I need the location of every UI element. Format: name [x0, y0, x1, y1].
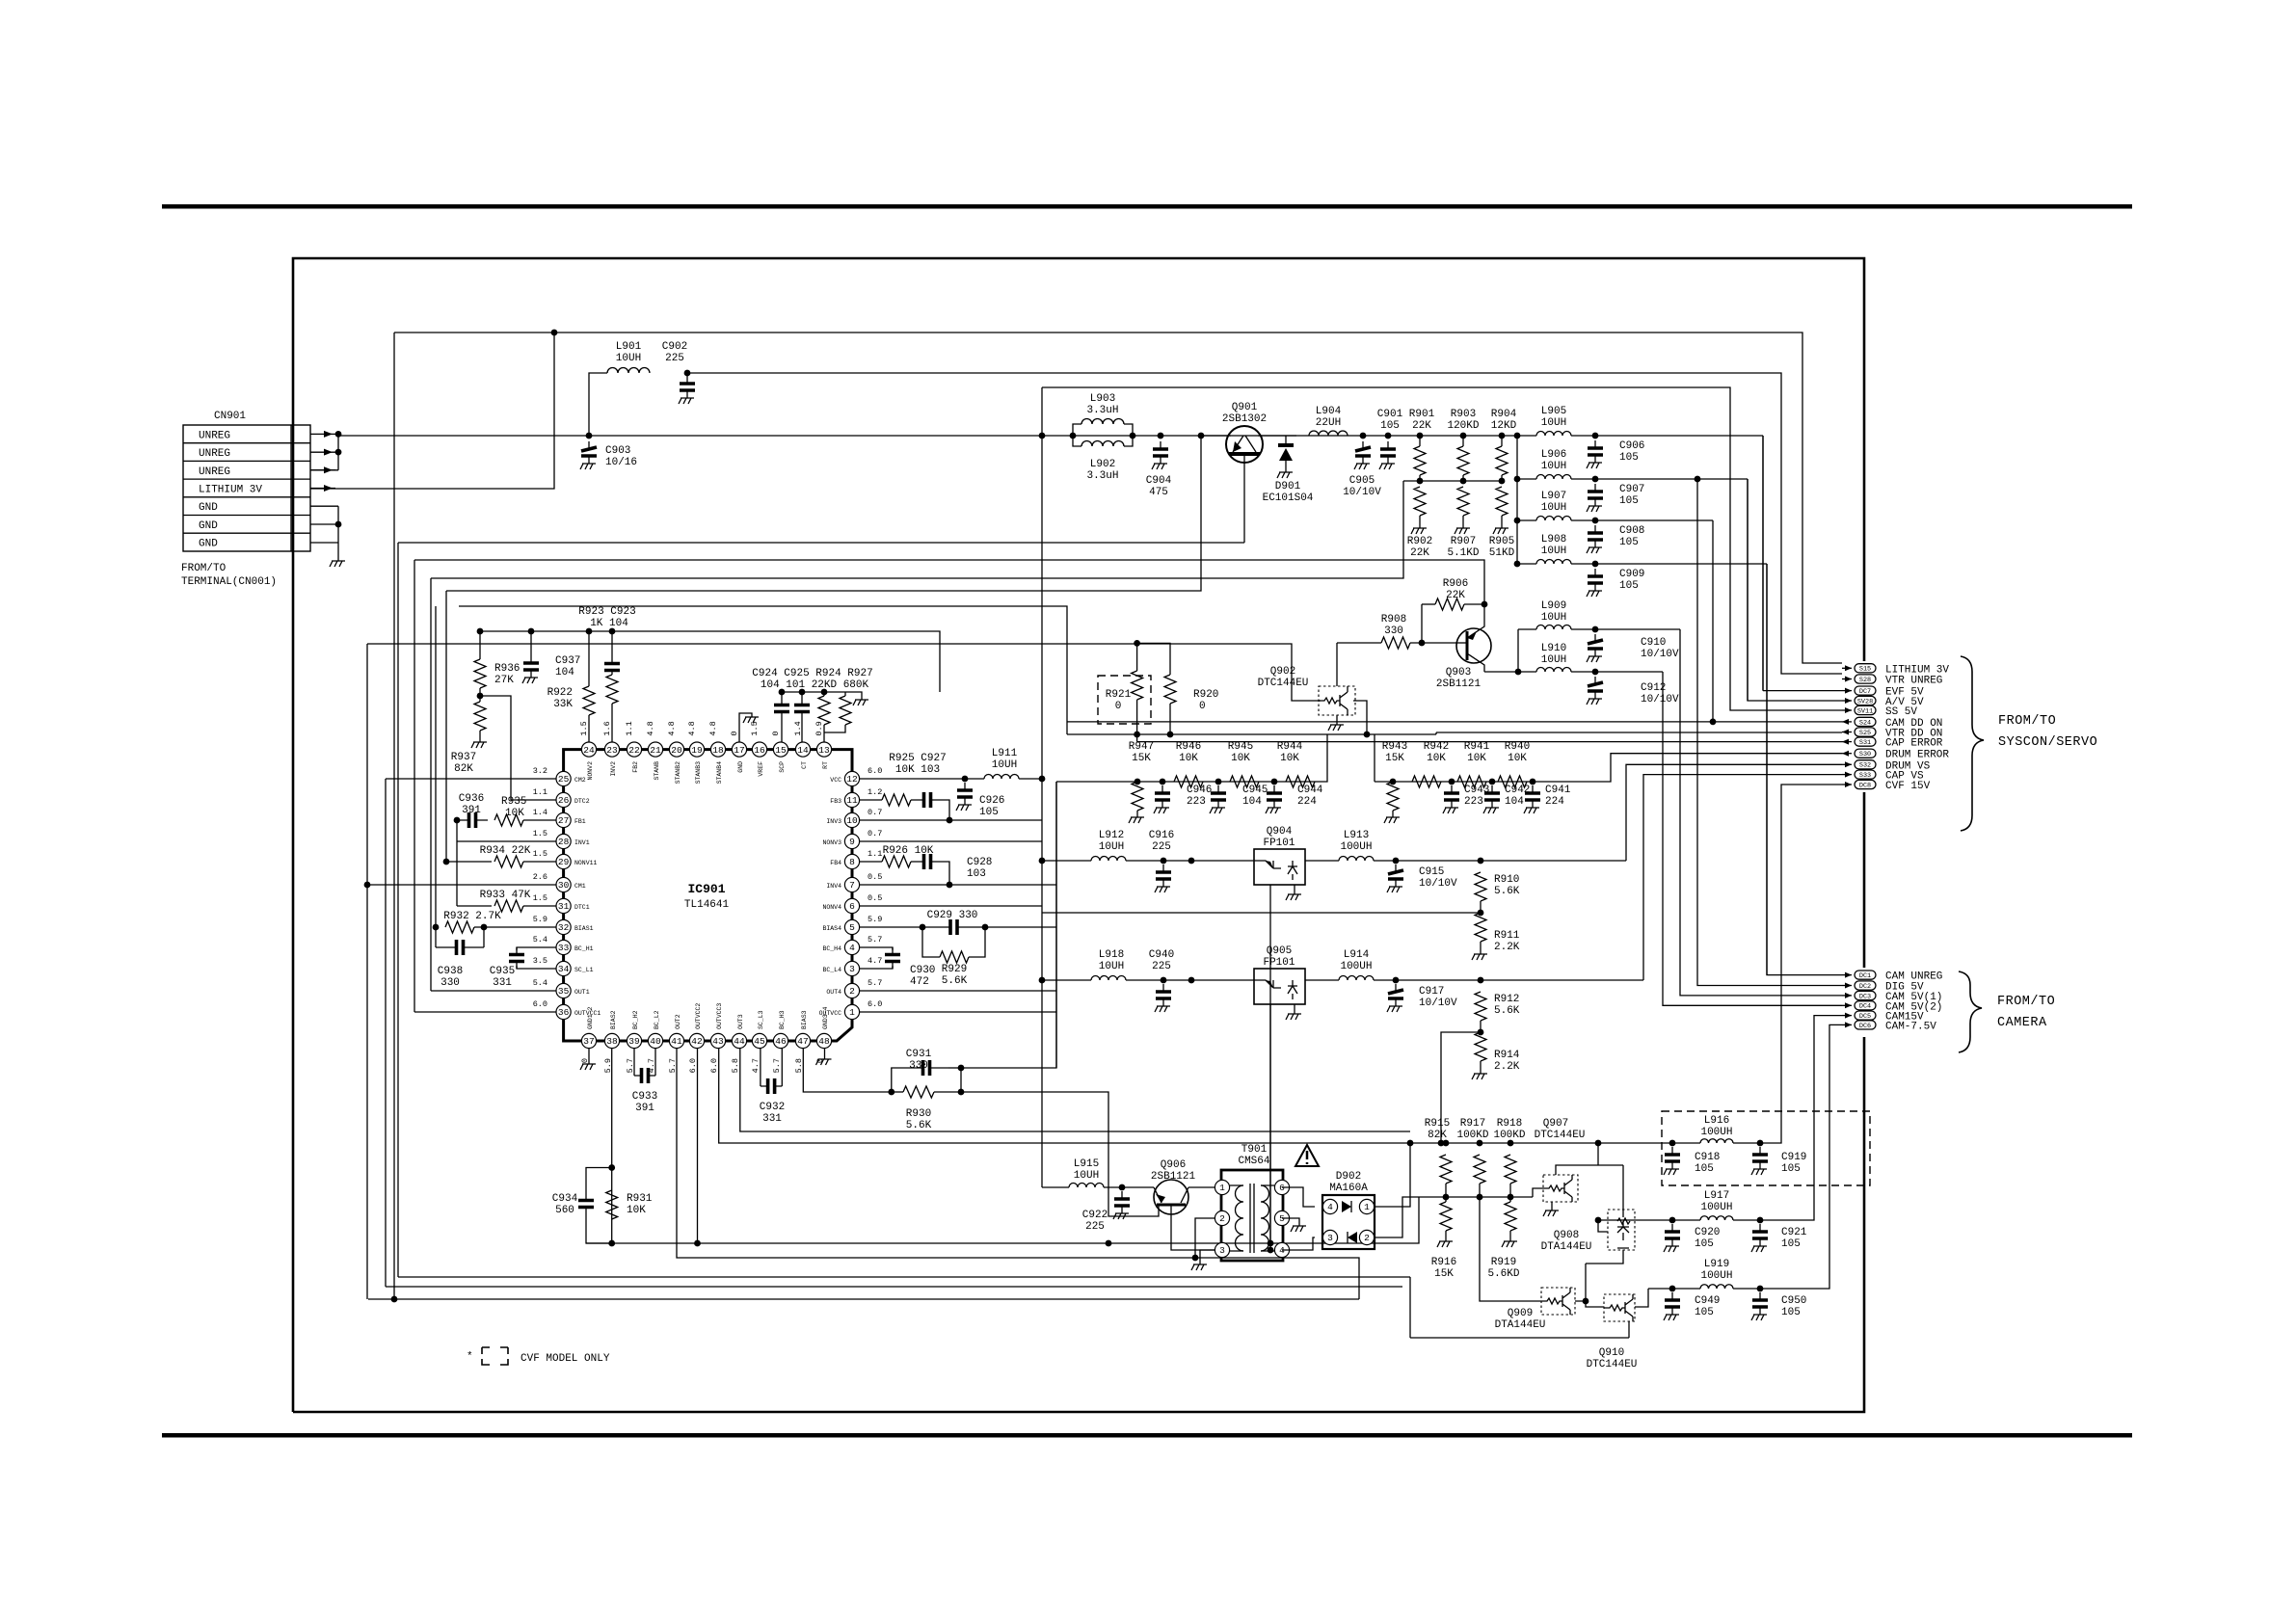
- svg-text:CVF MODEL ONLY: CVF MODEL ONLY: [521, 1353, 610, 1365]
- opto-isolator Q905 FP101: [1254, 969, 1305, 1004]
- svg-text:L919: L919: [1704, 1259, 1729, 1270]
- svg-text:2: 2: [1364, 1233, 1370, 1243]
- svg-text:27K: 27K: [494, 675, 514, 686]
- svg-text:DTA144EU: DTA144EU: [1495, 1319, 1546, 1331]
- svg-text:391: 391: [462, 805, 481, 816]
- svg-text:2.2K: 2.2K: [1494, 942, 1520, 953]
- svg-text:L906: L906: [1541, 449, 1566, 461]
- svg-text:0.9: 0.9: [814, 721, 824, 735]
- resistor R915: [1443, 1140, 1450, 1147]
- svg-text:OUT1: OUT1: [574, 989, 590, 996]
- svg-text:D902: D902: [1336, 1171, 1361, 1183]
- svg-text:DC2: DC2: [1859, 983, 1871, 991]
- svg-text:C950: C950: [1781, 1295, 1806, 1307]
- svg-text:5.7: 5.7: [868, 978, 882, 988]
- svg-text:6.0: 6.0: [709, 1058, 719, 1073]
- svg-text:30: 30: [558, 880, 570, 891]
- svg-text:331: 331: [493, 977, 512, 989]
- svg-text:100UH: 100UH: [1700, 1127, 1732, 1138]
- svg-text:C933: C933: [632, 1091, 657, 1103]
- svg-text:6.0: 6.0: [533, 999, 547, 1009]
- svg-text:17: 17: [734, 745, 744, 756]
- T901 pin 1: [1215, 1180, 1229, 1194]
- capacitor C919: [1759, 1147, 1761, 1155]
- svg-text:0: 0: [1199, 701, 1206, 712]
- svg-text:R919: R919: [1491, 1257, 1516, 1268]
- svg-text:C902: C902: [662, 341, 687, 353]
- svg-text:Q906: Q906: [1161, 1159, 1186, 1171]
- svg-text:10/10V: 10/10V: [1343, 487, 1381, 498]
- svg-text:R929: R929: [942, 964, 967, 975]
- svg-text:L911: L911: [992, 748, 1018, 759]
- svg-text:OUTVCC2: OUTVCC2: [695, 1003, 702, 1029]
- capacitor C941: [1530, 779, 1536, 785]
- svg-text:5.6K: 5.6K: [942, 975, 968, 987]
- svg-text:13: 13: [818, 745, 830, 756]
- svg-text:4.7: 4.7: [751, 1058, 761, 1073]
- svg-text:31: 31: [558, 901, 570, 912]
- svg-text:43: 43: [712, 1036, 724, 1047]
- terminal S28 VTR UNREG: [1842, 678, 1852, 680]
- svg-text:15K: 15K: [1132, 753, 1151, 764]
- capacitor C904: [1160, 441, 1161, 449]
- transistor Q903 2SB1121: [1456, 628, 1491, 663]
- capacitor C907: [1571, 478, 1748, 480]
- svg-text:R922: R922: [547, 687, 573, 699]
- resistor R941: [1457, 776, 1486, 787]
- svg-text:S30: S30: [1859, 751, 1871, 758]
- svg-text:105: 105: [1619, 580, 1639, 592]
- svg-text:10K: 10K: [627, 1205, 646, 1216]
- capacitor C910: [1571, 628, 1680, 630]
- svg-text:6.0: 6.0: [868, 999, 882, 1009]
- svg-text:1.4: 1.4: [793, 721, 803, 735]
- svg-text:L914: L914: [1344, 949, 1370, 961]
- capacitor C946: [1160, 779, 1166, 785]
- svg-text:SYSCON/SERVO: SYSCON/SERVO: [1998, 735, 2097, 750]
- svg-text:DC7: DC7: [1859, 688, 1871, 696]
- svg-text:BC_H2: BC_H2: [632, 1010, 639, 1029]
- svg-text:7: 7: [849, 880, 855, 891]
- svg-text:38: 38: [606, 1036, 618, 1047]
- wire bus fan y613: [446, 436, 1201, 591]
- IC901 pin 43 OUTVCC3: [710, 1033, 725, 1048]
- svg-text:BC_H1: BC_H1: [574, 945, 594, 952]
- wire LITHIUM 3V to top bus: [310, 333, 554, 489]
- svg-text:104: 104: [1242, 796, 1262, 808]
- svg-text:10K: 10K: [1427, 753, 1446, 764]
- resistor R905: [1499, 478, 1506, 485]
- wire bottom bus y1348: [368, 1298, 1359, 1300]
- svg-text:20: 20: [671, 745, 682, 756]
- svg-text:105: 105: [1781, 1163, 1801, 1175]
- svg-text:6.0: 6.0: [868, 766, 882, 776]
- transistor Q902 DTC144EU: [1319, 686, 1355, 715]
- svg-text:DTC144EU: DTC144EU: [1258, 678, 1309, 689]
- svg-text:4: 4: [1327, 1202, 1333, 1212]
- svg-text:GND: GND: [199, 502, 218, 514]
- page bottom rule: [162, 1433, 2132, 1438]
- svg-text:S15: S15: [1859, 666, 1871, 674]
- terminal DC8 CVF 15V: [1842, 784, 1852, 785]
- svg-text:0: 0: [771, 731, 781, 735]
- resistor R932 / capacitor C938 to pin32: [433, 924, 440, 931]
- svg-text:C926: C926: [979, 795, 1004, 807]
- diode D901 EC101S04: [1285, 436, 1287, 443]
- svg-text:OUT2: OUT2: [675, 1014, 681, 1029]
- svg-text:2SB1121: 2SB1121: [1436, 678, 1482, 690]
- svg-text:1.5: 1.5: [750, 721, 760, 735]
- svg-text:1.5: 1.5: [579, 721, 589, 735]
- inductor L916: [1669, 1140, 1676, 1147]
- svg-text:C907: C907: [1619, 484, 1644, 495]
- svg-text:6: 6: [1279, 1183, 1285, 1193]
- svg-text:DTA144EU: DTA144EU: [1541, 1241, 1592, 1253]
- IC901 pin 28 INV1: [556, 834, 571, 848]
- IC901 pin 32 BIAS1: [556, 919, 571, 934]
- IC901 pin 10 INV3: [844, 812, 859, 827]
- IC901 pin 14 CT: [795, 742, 810, 757]
- wire inner-left vertical x409: [393, 333, 395, 1299]
- svg-text:48: 48: [818, 1036, 830, 1047]
- svg-text:34: 34: [558, 964, 570, 974]
- resistor R920: [1137, 643, 1170, 675]
- svg-text:R902: R902: [1407, 536, 1432, 547]
- svg-text:29: 29: [558, 857, 570, 867]
- IC901 pin 22 FB2: [627, 742, 641, 757]
- svg-text:33: 33: [558, 943, 570, 953]
- wire bus fan y581: [414, 560, 1484, 604]
- svg-text:CAMERA: CAMERA: [1997, 1016, 2047, 1030]
- IC901 pin 48 GND3-4: [816, 1033, 831, 1048]
- svg-text:CN901: CN901: [214, 411, 246, 422]
- svg-text:C909: C909: [1619, 569, 1644, 580]
- svg-text:27: 27: [558, 815, 569, 826]
- svg-text:S28: S28: [1859, 677, 1871, 684]
- svg-text:SS 5V: SS 5V: [1885, 706, 1917, 718]
- capacitor C916: [1126, 860, 1254, 862]
- wire left vertical x463: [445, 591, 447, 862]
- ground IC pin48: [824, 1049, 826, 1059]
- resistor R934 to pin29: [443, 859, 450, 865]
- IC901 pin 23 INV2: [604, 742, 619, 757]
- IC901 pin 11 FB3: [844, 792, 859, 807]
- svg-text:225: 225: [1152, 841, 1171, 853]
- wire SV11 feed from y402 bus: [1042, 387, 1842, 710]
- svg-text:105: 105: [1695, 1238, 1714, 1250]
- IC901 pin 33 BC_H1: [556, 940, 571, 954]
- svg-text:1.1: 1.1: [625, 721, 634, 735]
- svg-text:DTC1: DTC1: [574, 904, 590, 911]
- svg-text:R910: R910: [1494, 874, 1519, 886]
- svg-text:51KD: 51KD: [1489, 547, 1515, 559]
- svg-text:STANB4: STANB4: [716, 761, 723, 785]
- svg-text:R923 C923: R923 C923: [578, 606, 635, 618]
- wire T901 pin2: [1195, 1218, 1215, 1258]
- resistor R945: [1230, 776, 1259, 787]
- svg-text:10UH: 10UH: [1541, 502, 1566, 514]
- transistor Q908 DTA144EU: [1608, 1210, 1635, 1250]
- terminal S31 CAP ERROR: [1842, 741, 1852, 743]
- wire S32 feed: [1626, 764, 1842, 861]
- IC901 pin 39 BC_H2: [627, 1033, 641, 1048]
- IC901 pin 7 INV4: [844, 877, 859, 891]
- svg-text:10UH: 10UH: [1099, 841, 1124, 853]
- svg-text:330: 330: [909, 1060, 928, 1072]
- inductor L904: [1309, 431, 1348, 436]
- svg-text:INV1: INV1: [574, 839, 590, 846]
- svg-text:C937: C937: [555, 655, 580, 667]
- wire left vertical x382: [366, 644, 368, 1299]
- svg-text:10K: 10K: [1508, 753, 1527, 764]
- capacitor C923 / resistor R923 column: [611, 631, 613, 659]
- svg-text:22K: 22K: [1410, 547, 1429, 559]
- inductor L908: [1517, 563, 1536, 565]
- wire DC7 feed: [1763, 690, 1842, 692]
- svg-text:2SB1121: 2SB1121: [1151, 1171, 1196, 1183]
- svg-text:37: 37: [583, 1036, 594, 1047]
- IC901 pin 5 BIAS4: [844, 919, 859, 934]
- svg-text:223: 223: [1464, 796, 1483, 808]
- svg-text:225: 225: [665, 353, 684, 364]
- svg-text:BIAS1: BIAS1: [574, 925, 594, 932]
- capacitor C942: [1489, 779, 1496, 785]
- svg-text:2: 2: [849, 986, 855, 997]
- svg-text:100UH: 100UH: [1340, 841, 1372, 853]
- svg-text:C940: C940: [1149, 949, 1174, 961]
- svg-text:R945: R945: [1228, 741, 1253, 753]
- wire L917 row: [1597, 1217, 1599, 1220]
- svg-text:R940: R940: [1505, 741, 1530, 753]
- svg-text:1.1: 1.1: [533, 787, 547, 797]
- transistor Q907 DTC144EU: [1543, 1175, 1578, 1202]
- wire left vertical x447: [430, 578, 432, 991]
- capacitor C940: [1126, 979, 1254, 981]
- svg-text:4.8: 4.8: [687, 721, 697, 735]
- svg-text:15K: 15K: [1385, 753, 1404, 764]
- svg-text:6: 6: [849, 901, 855, 912]
- svg-text:DTC2: DTC2: [574, 798, 590, 805]
- svg-text:1.5: 1.5: [533, 849, 547, 859]
- inductor L909: [1518, 628, 1536, 630]
- IC901 pin 34 SC_L1: [556, 961, 571, 975]
- inductor L913: [1305, 860, 1339, 862]
- svg-text:FP101: FP101: [1263, 957, 1295, 969]
- diode bridge D902 MA160A: [1322, 1195, 1375, 1249]
- svg-text:Q907: Q907: [1543, 1118, 1568, 1130]
- svg-text:R925 C927: R925 C927: [889, 753, 946, 764]
- svg-text:26: 26: [558, 795, 570, 806]
- svg-text:S31: S31: [1859, 739, 1871, 747]
- svg-text:35: 35: [558, 986, 570, 997]
- svg-text:R915: R915: [1425, 1118, 1450, 1130]
- inductor L907: [1517, 519, 1536, 521]
- capacitor C906: [1571, 435, 1763, 437]
- svg-text:5: 5: [1279, 1213, 1285, 1224]
- wire pin2 OUT4: [860, 990, 1056, 992]
- wire main UNREG rail: [338, 435, 1536, 437]
- wire pin12 VCC: [860, 778, 984, 780]
- wire Q905 row: [1042, 979, 1091, 981]
- svg-text:FB1: FB1: [574, 818, 586, 825]
- resistor R942: [1412, 776, 1441, 787]
- svg-text:R947: R947: [1129, 741, 1154, 753]
- svg-text:CAP ERROR: CAP ERROR: [1885, 738, 1943, 750]
- wire L908 output: [1766, 564, 1768, 975]
- terminal SV11 SS 5V: [1842, 709, 1852, 711]
- wire pin44 OUT3 down: [740, 1049, 1410, 1131]
- svg-text:3.5: 3.5: [533, 956, 547, 966]
- svg-text:CVF 15V: CVF 15V: [1885, 781, 1931, 792]
- svg-text:R916: R916: [1431, 1257, 1456, 1268]
- svg-text:1.4: 1.4: [533, 808, 547, 817]
- IC901 pin 41 OUT2: [669, 1033, 683, 1048]
- inductor L912: [1091, 857, 1126, 862]
- svg-text:R943: R943: [1382, 741, 1407, 753]
- svg-text:1K 104: 1K 104: [590, 618, 628, 629]
- svg-text:18: 18: [712, 745, 724, 756]
- wire bottom rail y1388: [1410, 1337, 1629, 1339]
- svg-text:105: 105: [1619, 452, 1639, 464]
- svg-text:R941: R941: [1464, 741, 1490, 753]
- svg-text:Q909: Q909: [1508, 1308, 1533, 1319]
- transistor Q901 2SB1302: [1226, 426, 1263, 463]
- svg-text:C941: C941: [1545, 785, 1571, 796]
- svg-text:12KD: 12KD: [1491, 420, 1517, 432]
- svg-text:6.0: 6.0: [688, 1058, 698, 1073]
- svg-text:C931: C931: [906, 1049, 932, 1060]
- wire mid junction row y499: [1403, 480, 1502, 482]
- svg-text:R944: R944: [1277, 741, 1303, 753]
- resistor R916: [1440, 1202, 1452, 1231]
- svg-text:GND: GND: [737, 761, 744, 773]
- wire bus fan y629: [459, 606, 1067, 734]
- svg-text:VREF: VREF: [758, 761, 764, 777]
- svg-text:5.7: 5.7: [772, 1058, 782, 1073]
- wire mid row y1242: [1419, 1196, 1533, 1198]
- svg-text:10UH: 10UH: [1541, 461, 1566, 472]
- svg-text:L918: L918: [1099, 949, 1124, 961]
- svg-text:S32: S32: [1859, 762, 1871, 770]
- wire VTR UNREG line (L901 row) to S28: [589, 373, 607, 436]
- terminal DC5 CAM15V: [1842, 1015, 1852, 1017]
- svg-text:R907: R907: [1451, 536, 1476, 547]
- svg-text:23: 23: [606, 745, 618, 756]
- terminal SV28 A/V 5V: [1842, 700, 1852, 702]
- resistor R906: [1422, 603, 1435, 605]
- transistor Q909 DTA144EU: [1541, 1288, 1575, 1315]
- svg-text:10: 10: [846, 815, 858, 826]
- svg-text:5.6K: 5.6K: [1494, 886, 1520, 897]
- svg-text:10/10V: 10/10V: [1419, 998, 1457, 1009]
- svg-text:10/10V: 10/10V: [1641, 649, 1679, 660]
- svg-text:10/10V: 10/10V: [1641, 694, 1679, 705]
- svg-text:22: 22: [628, 745, 640, 756]
- resistor R908: [1337, 642, 1381, 644]
- svg-text:82K: 82K: [454, 763, 473, 775]
- resistor R904 column top: [1496, 446, 1508, 475]
- wire pin36 OUTVCC1: [414, 1011, 556, 1013]
- svg-text:5.4: 5.4: [533, 978, 547, 988]
- svg-text:C901: C901: [1377, 409, 1403, 420]
- IC901 pin 26 DTC2: [556, 792, 571, 807]
- T901 pin 5: [1274, 1211, 1289, 1225]
- svg-text:C934: C934: [552, 1193, 578, 1205]
- svg-text:FROM/TO: FROM/TO: [181, 563, 227, 574]
- svg-text:C919: C919: [1781, 1152, 1806, 1163]
- svg-text:L902: L902: [1090, 459, 1115, 470]
- IC901 pin 45 SC_L3: [752, 1033, 766, 1048]
- IC901 pin 37 GND1-2: [581, 1033, 596, 1048]
- svg-text:BC_L4: BC_L4: [822, 967, 841, 973]
- IC901 pin 20 STANB2: [669, 742, 683, 757]
- ground T901 pin5: [1282, 1218, 1299, 1226]
- svg-text:46: 46: [775, 1036, 787, 1047]
- IC901 pin 38 BIAS2: [604, 1033, 619, 1048]
- wire R912/R914 junction: [1478, 1029, 1484, 1036]
- wire pin43 OUTVCC3 down to supply bus: [719, 1049, 1700, 1143]
- svg-text:25: 25: [558, 774, 570, 785]
- svg-text:0: 0: [1115, 701, 1122, 712]
- svg-text:330: 330: [1384, 625, 1403, 637]
- svg-text:100KD: 100KD: [1493, 1130, 1525, 1141]
- wire pin47 BIAS3 down: [803, 1049, 892, 1092]
- resistor R943: [1390, 779, 1397, 785]
- svg-text:CM2: CM2: [574, 777, 586, 784]
- svg-text:IC901: IC901: [687, 882, 725, 896]
- svg-text:R931: R931: [627, 1193, 653, 1205]
- svg-text:104: 104: [555, 667, 574, 678]
- svg-text:R906: R906: [1443, 578, 1468, 590]
- svg-text:1: 1: [1219, 1183, 1225, 1193]
- svg-text:Q902: Q902: [1270, 666, 1295, 678]
- wire R910/R911 junction row: [1478, 910, 1484, 917]
- IC901 pin 17 GND: [732, 742, 746, 757]
- terminal DC7 EVF 5V: [1842, 690, 1852, 692]
- svg-text:BC_L2: BC_L2: [654, 1010, 660, 1029]
- resistor R924: [818, 696, 830, 725]
- brace CAMERA: [1959, 971, 1982, 1052]
- CVF-only dashed box with L916: [1662, 1111, 1870, 1185]
- wire bus fan y600: [431, 481, 1403, 578]
- resistor R912: [1478, 977, 1484, 984]
- IC901 pin 18 STANB4: [710, 742, 725, 757]
- wire pin10 INV3: [860, 819, 1042, 821]
- svg-text:1.5: 1.5: [533, 829, 547, 838]
- wire pin25 CM2: [386, 778, 556, 780]
- svg-text:330: 330: [441, 977, 460, 989]
- IC901 pin 2 OUT4: [844, 983, 859, 998]
- svg-text:4.8: 4.8: [667, 721, 677, 735]
- wire SV28 feed: [1748, 479, 1842, 701]
- svg-text:Q903: Q903: [1446, 667, 1471, 678]
- wire UNREG merge bus: [337, 434, 339, 469]
- svg-text:560: 560: [555, 1205, 574, 1216]
- svg-text:CM1: CM1: [574, 883, 586, 890]
- rows L909/L910: [1517, 629, 1519, 672]
- svg-text:INV3: INV3: [826, 818, 841, 825]
- IC901 pin 27 FB1: [556, 812, 571, 827]
- svg-text:5.7: 5.7: [868, 935, 882, 945]
- IC901 pin 16 VREF: [752, 742, 766, 757]
- terminal S30 DRUM ERROR: [1842, 753, 1852, 755]
- wire pin38 BIAS2 down / C934 R931: [611, 1049, 613, 1243]
- svg-text:R917: R917: [1460, 1118, 1485, 1130]
- svg-text:C930: C930: [910, 965, 935, 976]
- T901 pin 2: [1215, 1211, 1229, 1225]
- svg-text:OUT4: OUT4: [826, 989, 841, 996]
- svg-text:STANB3: STANB3: [695, 761, 702, 785]
